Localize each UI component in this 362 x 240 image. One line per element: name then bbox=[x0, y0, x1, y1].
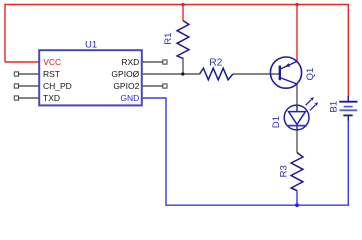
svg-text:TXD: TXD bbox=[43, 93, 60, 103]
svg-text:D1: D1 bbox=[271, 116, 282, 128]
svg-text:B1: B1 bbox=[328, 101, 339, 113]
svg-text:VCC: VCC bbox=[43, 57, 61, 67]
svg-text:Q1: Q1 bbox=[305, 68, 316, 81]
node junction on VCC rail at Q1 bbox=[295, 3, 299, 7]
svg-text:GPIO2: GPIO2 bbox=[113, 81, 139, 91]
terminal square GPIO2 bbox=[163, 84, 167, 88]
wire D1 cathode to R3 bbox=[296, 130, 298, 153]
node junction R1/GPIO0/R2 bbox=[181, 72, 184, 75]
wire GND net: U1 GND pin right, down, bottom rail, battery riser bbox=[142, 98, 348, 205]
svg-text:R3: R3 bbox=[278, 165, 289, 177]
wire RST terminal to U1 bbox=[19, 73, 40, 75]
wire GPIO2 pin to terminal bbox=[142, 85, 163, 87]
resistor R2 bbox=[200, 68, 233, 80]
D1 light arrow 2 bbox=[310, 105, 316, 111]
svg-text:GND: GND bbox=[120, 93, 139, 103]
wire R1 bottom to GPIO0 net bbox=[182, 58, 184, 75]
svg-text:RST: RST bbox=[43, 69, 60, 79]
LED D1 bbox=[284, 97, 318, 130]
battery B1 bbox=[339, 96, 357, 121]
wire VCC net: left riser, top rail, battery riser bbox=[5, 5, 348, 97]
transistor Q1 (PNP) bbox=[270, 57, 301, 88]
wire GPIO0 pin to R2 bbox=[142, 73, 200, 75]
terminal square RST bbox=[14, 72, 18, 76]
wire TXD terminal to U1 bbox=[19, 97, 40, 99]
op-amp U1 body box bbox=[39, 50, 142, 105]
node junction on VCC rail at R1 bbox=[181, 3, 185, 7]
wire RXD pin to terminal bbox=[142, 61, 163, 63]
wire VCC to R1 top bbox=[182, 5, 184, 21]
D1 light arrow 1 bbox=[306, 100, 312, 106]
terminal square RXD bbox=[163, 60, 167, 64]
svg-text:R2: R2 bbox=[209, 57, 222, 68]
node junction R3/GND rail bbox=[295, 203, 299, 207]
terminal square CH_PD bbox=[14, 84, 18, 88]
wire R2 to Q1 base bbox=[233, 73, 280, 75]
wire R3 bottom to GND rail bbox=[296, 191, 298, 206]
wire VCC to Q1 emitter bbox=[296, 5, 298, 62]
wire CH_PD terminal to U1 bbox=[19, 85, 40, 87]
svg-text:R1: R1 bbox=[163, 33, 174, 45]
svg-text:CH_PD: CH_PD bbox=[43, 81, 72, 91]
resistor R3 bbox=[291, 153, 303, 191]
svg-text:U1: U1 bbox=[85, 39, 97, 50]
svg-text:GPIOØ: GPIOØ bbox=[111, 69, 139, 79]
wire VCC pin stub to U1 bbox=[5, 61, 39, 63]
terminal square TXD bbox=[14, 96, 18, 100]
svg-text:RXD: RXD bbox=[121, 57, 139, 67]
wire Q1 collector to D1 anode bbox=[296, 84, 298, 106]
resistor R1 bbox=[177, 21, 189, 59]
